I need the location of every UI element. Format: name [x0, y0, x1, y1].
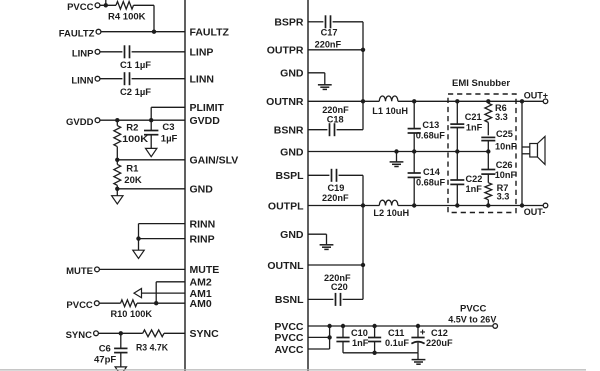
wire SYNC to R3 [98, 332, 142, 334]
svg-text:C17: C17 [321, 28, 338, 38]
svg-text:C21: C21 [465, 112, 482, 122]
svg-text:C25: C25 [496, 129, 513, 139]
svg-text:OUTPL: OUTPL [268, 200, 304, 212]
svg-text:AM0: AM0 [190, 298, 212, 310]
terminal MUTE [66, 266, 99, 277]
value label C17 220nF [315, 39, 342, 49]
pin SYNC (IC left) [190, 328, 220, 340]
terminal FAULTZ [59, 28, 101, 39]
resistor R3 [143, 330, 164, 337]
value label L1 10uH [372, 106, 408, 116]
pin GND (IC right) [280, 146, 304, 158]
label supply range 4.5V to 26V [448, 315, 496, 325]
node GAIN-SLV/R2/R1 junction [115, 158, 119, 162]
pin OUTPR (IC right) [267, 45, 304, 57]
node C11 top [372, 324, 376, 328]
svg-text:C13: C13 [422, 120, 439, 130]
node C21 bottom [455, 149, 459, 153]
wire RINP [139, 238, 186, 240]
value label R4 100K [108, 12, 146, 23]
wire PVCC to R4 [100, 4, 116, 6]
node speaker - junction [520, 203, 524, 207]
resistor R1 [114, 160, 121, 189]
svg-text:PLIMIT: PLIMIT [190, 102, 225, 114]
svg-text:EMI Snubber: EMI Snubber [452, 78, 510, 89]
wire AM2 [156, 282, 185, 303]
svg-text:C1 1µF: C1 1µF [120, 60, 151, 71]
wire L1 to snubber [398, 100, 543, 102]
value label C25 10nF [495, 142, 517, 152]
wire BSPR to C17 [308, 21, 323, 23]
svg-text:4.5V to 26V: 4.5V to 26V [448, 315, 496, 325]
svg-text:R2: R2 [126, 123, 138, 134]
ground below C3 [146, 148, 157, 156]
svg-text:BSNL: BSNL [275, 294, 304, 306]
wire GND mid rail [308, 151, 488, 153]
svg-text:PVCC: PVCC [274, 332, 304, 344]
svg-text:GVDD: GVDD [190, 115, 221, 127]
wire C1 to IC [132, 51, 185, 53]
wire LINP left [100, 51, 123, 53]
svg-text:MUTE: MUTE [190, 264, 220, 276]
value label 47pF [94, 355, 116, 366]
value label R10 100K [111, 309, 153, 320]
svg-text:LINN: LINN [190, 74, 215, 86]
wire GAIN/SLV [117, 159, 185, 161]
wire OUTNR to L1 [363, 100, 379, 102]
pin PLIMIT (IC left) [190, 102, 225, 114]
svg-text:0.68uF: 0.68uF [416, 131, 445, 141]
svg-text:LINN: LINN [71, 75, 93, 86]
pin BSPR (IC right) [274, 17, 304, 29]
label C21 [465, 112, 482, 122]
svg-text:AVCC: AVCC [275, 344, 304, 356]
label C3 [162, 122, 174, 133]
svg-text:1µF: 1µF [161, 134, 178, 145]
svg-text:OUTNR: OUTNR [266, 96, 304, 108]
capacitor C1 [125, 45, 130, 58]
value label C12 220uF [426, 338, 453, 348]
pin LINN (IC left) [190, 74, 215, 86]
node C11 bottom [372, 351, 376, 355]
svg-text:GND: GND [280, 229, 304, 241]
pin GND (IC right) [280, 68, 304, 80]
resistor R7 [485, 174, 492, 205]
terminal GVDD [66, 117, 100, 128]
label R1 [126, 163, 139, 174]
svg-text:C26: C26 [496, 160, 513, 170]
node FAULTZ junction [152, 30, 156, 34]
wire PVCC pin 2 [308, 336, 330, 338]
capacitor C22 [450, 152, 464, 206]
resistor R4 [116, 2, 134, 10]
pin RINP (IC left) [190, 233, 215, 245]
svg-text:3.3: 3.3 [497, 192, 510, 202]
label C6 [99, 343, 111, 354]
wire OUTPL to L2 [363, 205, 379, 207]
label C11 [388, 328, 404, 338]
ground below R1 [112, 196, 123, 204]
resistor R6 [485, 101, 492, 135]
pin GND (IC right) [280, 229, 304, 241]
svg-text:OUT+: OUT+ [524, 91, 548, 101]
value label R7 3.3 [497, 192, 510, 202]
label C26 [496, 160, 513, 170]
wire C18 to tie column [337, 101, 363, 129]
resistor R2 [114, 120, 121, 160]
value label 100K [122, 134, 148, 145]
wire C2 to IC [132, 78, 185, 80]
value label C22 1nF [466, 184, 483, 194]
value label C10 1nF [352, 338, 369, 348]
svg-text:0.1uF: 0.1uF [385, 338, 409, 348]
svg-text:OUTNL: OUTNL [267, 260, 304, 272]
wire R3 to IC [164, 332, 185, 334]
wire GND pin 3 [308, 234, 327, 245]
svg-text:L2 10uH: L2 10uH [373, 208, 409, 218]
label C17 [321, 28, 338, 38]
terminal LINP [72, 48, 100, 59]
pin BSNL (IC right) [275, 294, 304, 306]
svg-text:C6: C6 [99, 343, 111, 354]
inductor L2 [379, 200, 398, 205]
node GVDD/R2 junction [115, 118, 119, 122]
svg-text:C19: C19 [328, 183, 345, 193]
wire tie OUTPL-OUTNL [362, 206, 364, 266]
label C10 [351, 328, 368, 338]
svg-text:1nF: 1nF [466, 184, 483, 194]
node C22 bottom [455, 203, 459, 207]
wire AM1 [142, 292, 186, 294]
value label C26 10nF [495, 170, 517, 180]
wire OUTNL [308, 264, 363, 266]
node GVDD/C3 junction [149, 118, 153, 122]
svg-text:C10: C10 [351, 328, 368, 338]
capacitor C12 (electrolytic) [411, 326, 424, 353]
capacitor C2 [125, 72, 130, 85]
capacitor C3 [144, 120, 158, 148]
pin GAIN/SLV (IC left) [190, 155, 239, 167]
svg-text:FAULTZ: FAULTZ [190, 27, 230, 39]
svg-text:LINP: LINP [72, 48, 94, 59]
wire L2 to snubber [398, 205, 543, 207]
wire BSPL to C19 [308, 174, 329, 176]
svg-text:R10 100K: R10 100K [111, 309, 153, 320]
svg-text:C22: C22 [466, 174, 483, 184]
capacitor C25 [481, 137, 495, 151]
value label C18 220nF [322, 105, 349, 115]
node PVCC/R4 junction [104, 3, 108, 7]
wire PVCC rail [308, 325, 493, 327]
value label C11 0.1uF [385, 338, 409, 348]
svg-text:C2 1µF: C2 1µF [120, 87, 151, 98]
node OUTPL junction [361, 203, 365, 207]
node C10 top [341, 324, 345, 328]
scan artifact bottom edge [0, 369, 586, 371]
capacitor C10 [336, 326, 349, 353]
svg-text:LINP: LINP [190, 47, 214, 59]
svg-text:C3: C3 [162, 122, 174, 133]
resistor R10 [121, 300, 138, 307]
pin MUTE (IC left) [190, 264, 220, 276]
capacitor C6 [114, 333, 127, 367]
label PVCC supply [460, 303, 487, 314]
ground GND3 [320, 245, 334, 250]
node PVCC rail / AVCC tie [327, 324, 331, 328]
svg-text:3.3: 3.3 [495, 112, 508, 122]
wire RINP down to ground [138, 239, 140, 251]
svg-text:BSNR: BSNR [274, 125, 304, 137]
svg-text:C20: C20 [331, 282, 348, 292]
terminal PVCC (AM0) [66, 300, 99, 311]
svg-text:FAULTZ: FAULTZ [59, 28, 95, 39]
pin AM1 (IC left) [190, 288, 212, 300]
svg-text:220uF: 220uF [426, 338, 453, 348]
terminal PVCC (right) [493, 324, 498, 329]
label C14 [423, 167, 441, 177]
svg-text:RINN: RINN [190, 218, 216, 230]
svg-text:20K: 20K [124, 175, 142, 186]
value label C19 220nF [322, 193, 349, 203]
svg-text:GVDD: GVDD [66, 117, 94, 128]
capacitor C21 [450, 101, 464, 151]
node RINP junction [136, 236, 140, 240]
label C13 [422, 120, 439, 130]
svg-text:C12: C12 [431, 328, 448, 338]
label OUT- [524, 207, 546, 217]
capacitor C14 [408, 152, 421, 206]
label C22 [466, 174, 483, 184]
value label C2 1uF [120, 87, 151, 98]
pin AM0 (IC left) [190, 298, 212, 310]
svg-text:C18: C18 [327, 114, 344, 124]
speaker LS1 [530, 136, 545, 164]
node PVCC2 tie [327, 335, 331, 339]
terminal PVCC (top) [67, 2, 100, 13]
svg-text:220nF: 220nF [315, 39, 342, 49]
node R7 bottom [486, 203, 490, 207]
terminal OUT+ [543, 99, 548, 104]
label C12 [431, 328, 448, 338]
pin RINN (IC left) [190, 218, 216, 230]
label R2 [126, 123, 138, 134]
capacitor C17 [326, 15, 331, 28]
wire BSNR to C18 [308, 129, 327, 131]
arrow on AM1 [134, 289, 142, 298]
svg-text:BSPL: BSPL [275, 170, 304, 182]
wire AVCC pin [308, 326, 330, 349]
node C12 top [416, 324, 420, 328]
node C21 top [455, 99, 459, 103]
ground below C12 [412, 360, 426, 365]
svg-text:RINP: RINP [190, 233, 215, 245]
wire decoupling bottom rail [343, 352, 418, 354]
svg-text:GND: GND [190, 184, 214, 196]
capacitor C20 [336, 293, 341, 306]
svg-text:MUTE: MUTE [66, 266, 93, 277]
capacitor C11 [368, 326, 381, 353]
op-amp/IC U1 body [185, 0, 308, 371]
svg-text:PVCC: PVCC [67, 2, 94, 13]
svg-text:SYNC: SYNC [190, 328, 220, 340]
svg-text:PVCC: PVCC [274, 321, 304, 333]
node L2/C14 junction [412, 203, 416, 207]
value label R6 3.3 [495, 112, 508, 122]
label EMI Snubber [452, 78, 510, 89]
node GND/R1 junction [115, 187, 119, 191]
pin LINP (IC left) [190, 47, 214, 59]
node L1/C13 junction [412, 99, 416, 103]
node OUTNR junction [361, 99, 365, 103]
value label 20K [124, 175, 142, 186]
terminal LINN [71, 75, 100, 86]
ground GND2 [390, 162, 404, 167]
capacitor C18 [330, 123, 335, 136]
svg-text:10nF: 10nF [495, 142, 517, 152]
wire stub up from PVCC node [105, 0, 107, 5]
label R6 [495, 103, 507, 113]
pin BSNR (IC right) [274, 125, 304, 137]
wire OUTPR [308, 49, 363, 51]
svg-text:C14: C14 [423, 167, 441, 177]
wire C19 to tie column [339, 175, 363, 205]
svg-text:PVCC: PVCC [460, 303, 487, 314]
pin OUTNR (IC right) [266, 96, 304, 108]
value label R3 4.7K [136, 343, 168, 354]
wire C17 to tie column [333, 22, 363, 50]
svg-text:220nF: 220nF [322, 193, 349, 203]
wire OUTNR [308, 100, 363, 102]
svg-text:1nF: 1nF [466, 123, 483, 133]
node AM0/AM2 junction [154, 301, 158, 305]
svg-text:OUTPR: OUTPR [267, 45, 304, 57]
wire R10 to IC [137, 302, 185, 304]
pin AVCC (IC right) [275, 344, 304, 356]
wire tie OUTNL-BSNL corner [362, 265, 364, 299]
wire BSNL to C20 [308, 298, 333, 300]
capacitor C19 [332, 169, 337, 182]
svg-text:GAIN/SLV: GAIN/SLV [190, 155, 239, 167]
svg-text:47pF: 47pF [94, 355, 116, 366]
pin OUTPL (IC right) [268, 200, 304, 212]
inductor L1 [379, 96, 398, 101]
wire LINN left [100, 78, 123, 80]
capacitor C13 [408, 101, 421, 151]
node gnd-rail ground tee [394, 149, 398, 153]
value label C1 1uF [120, 60, 151, 71]
value label L2 10uH [373, 208, 409, 218]
pin GND (IC left) [190, 184, 214, 196]
value label C14 0.68uF [416, 178, 445, 188]
svg-text:AM2: AM2 [190, 277, 212, 289]
pin GVDD (IC left) [190, 115, 221, 127]
svg-text:R1: R1 [126, 163, 139, 174]
svg-text:GND: GND [280, 68, 304, 80]
node OUTNL junction [361, 263, 365, 267]
terminal SYNC [66, 330, 99, 341]
ground below C6 (clipped) [115, 367, 126, 371]
wire C12 to ground [417, 353, 419, 360]
pin PVCC (IC right) [274, 332, 304, 344]
wire FAULTZ [101, 31, 185, 33]
label C20 [331, 282, 348, 292]
pin BSPL (IC right) [275, 170, 304, 182]
node speaker + junction [520, 99, 524, 103]
svg-text:R3 4.7K: R3 4.7K [136, 343, 168, 354]
svg-text:1nF: 1nF [352, 338, 369, 348]
pin AM2 (IC left) [190, 277, 212, 289]
svg-text:BSPR: BSPR [274, 17, 304, 29]
wire MUTE [99, 268, 185, 270]
pin PVCC (IC right) [274, 321, 304, 333]
wire GND (left) [117, 188, 185, 190]
capacitor C26 [481, 152, 495, 175]
wire GND pin 1 [308, 73, 325, 85]
polarity + of C12 [420, 330, 425, 335]
wire PVCC to R10 [99, 302, 120, 304]
label C25 [496, 129, 513, 139]
wire speaker stubs [522, 147, 530, 154]
wire PLIMIT [151, 107, 185, 120]
label OUT+ [524, 91, 548, 101]
label R7 [497, 183, 509, 193]
ground GND1 [318, 85, 332, 90]
terminal OUT- [543, 203, 548, 208]
svg-text:10nF: 10nF [495, 170, 517, 180]
svg-text:R4 100K: R4 100K [108, 12, 146, 23]
wire ground stem [396, 152, 398, 162]
label C19 [328, 183, 345, 193]
wire speaker column [521, 101, 523, 205]
node C13/rail junction [412, 149, 416, 153]
svg-text:SYNC: SYNC [66, 330, 93, 341]
wire GVDD [100, 119, 185, 121]
wire RINN [139, 224, 186, 239]
node R6 top [486, 99, 490, 103]
EMI snubber dashed box [448, 94, 516, 213]
svg-text:GND: GND [280, 146, 304, 158]
pin FAULTZ (IC left) [190, 27, 230, 39]
node mid-snubber junction [486, 149, 490, 153]
svg-text:0.68uF: 0.68uF [416, 178, 445, 188]
svg-text:OUT-: OUT- [524, 207, 546, 217]
wire tie OUTPR-OUTNR [362, 50, 364, 102]
wire R4 to FAULTZ net [134, 5, 155, 31]
node OUTPR junction [361, 48, 365, 52]
svg-text:L1 10uH: L1 10uH [372, 106, 408, 116]
ground below RINP [133, 250, 144, 258]
value label C13 0.68uF [416, 131, 445, 141]
wire C20 to tie column [343, 298, 363, 300]
value label C21 1nF [466, 123, 483, 133]
value label C20 220nF [324, 273, 351, 283]
node SYNC/C6 junction [119, 331, 123, 335]
pin OUTNL (IC right) [267, 260, 304, 272]
wire OUTPL [308, 205, 363, 207]
svg-text:C11: C11 [388, 328, 404, 338]
wire R1 bottom to ground [116, 189, 118, 196]
svg-text:PVCC: PVCC [66, 300, 93, 311]
label C18 [327, 114, 344, 124]
value label C3 1uF [161, 134, 178, 145]
